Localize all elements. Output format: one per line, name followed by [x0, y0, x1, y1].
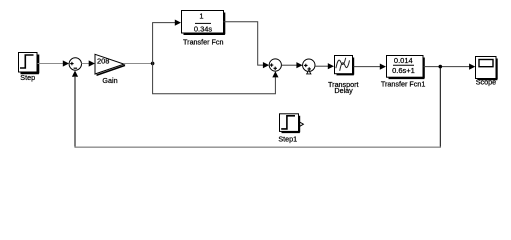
sum junction Sum2 (+ +): [269, 59, 281, 71]
transfer function block Transfer Fcn1 value 0.014/(0.6s+1): [381, 56, 425, 89]
svg-text:Delay: Delay: [334, 86, 353, 95]
svg-text:Scope: Scope: [476, 77, 496, 86]
sum junction Sum3 (+ +) with unconnected lower port: [303, 59, 315, 74]
wire branch up to Transfer Fcn input: [153, 20, 181, 64]
svg-text:0.6s+1: 0.6s+1: [392, 66, 415, 75]
wire Transfer Fcn output to Sum2: [224, 22, 270, 68]
step source block Step1 (output unconnected): [278, 114, 303, 144]
svg-text:Step1: Step1: [278, 134, 297, 143]
sum junction Sum1 (+ -): [69, 58, 81, 70]
svg-text:0.34s: 0.34s: [194, 25, 213, 34]
wire Gain output to branch node: [124, 63, 153, 65]
wire Sum1 to Gain: [82, 60, 95, 66]
junction node after Gain: [151, 62, 155, 66]
wire feedback from tap to Sum1: [72, 67, 441, 148]
wire Sum2 to Sum3: [281, 62, 302, 68]
svg-text:0.014: 0.014: [394, 56, 413, 65]
transfer function block Transfer Fcn value 1/0.34s: [182, 11, 225, 47]
gain block Gain value 208: [95, 54, 125, 85]
svg-text:1: 1: [199, 12, 203, 21]
svg-text:Transfer Fcn: Transfer Fcn: [183, 38, 223, 47]
wire Transport Delay to Transfer Fcn1: [354, 64, 387, 70]
wire Transfer Fcn1 to Scope: [424, 64, 476, 70]
svg-text:Gain: Gain: [102, 76, 117, 85]
step source block Step: [19, 53, 39, 82]
svg-text:208: 208: [97, 56, 110, 65]
svg-text:Step: Step: [20, 73, 35, 82]
junction node feedback tap: [439, 65, 443, 69]
scope block Scope: [476, 57, 498, 87]
svg-text:Transfer Fcn1: Transfer Fcn1: [381, 79, 425, 88]
wire Sum3 to Transport Delay: [315, 63, 334, 69]
wire Step to Sum1: [38, 60, 70, 66]
transport delay block Transport Delay: [328, 56, 359, 95]
wire branch down to Sum2 lower input: [153, 63, 279, 93]
